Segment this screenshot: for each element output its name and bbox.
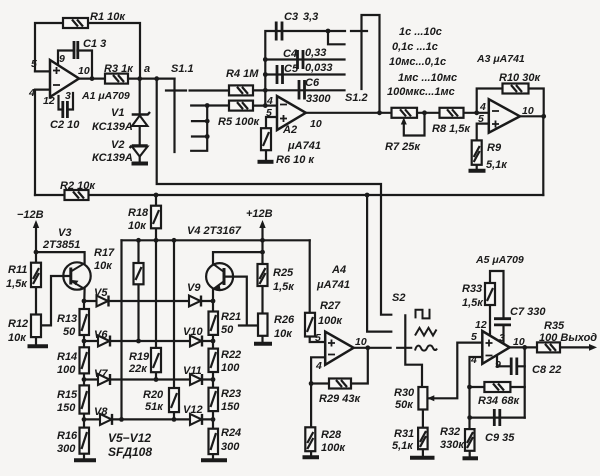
potentiometer R30 body <box>418 387 427 410</box>
svg-text:R13: R13 <box>57 313 77 325</box>
svg-text:10: 10 <box>522 105 534 117</box>
svg-text:КС139А: КС139А <box>92 152 133 164</box>
svg-text:R23: R23 <box>221 388 241 400</box>
svg-text:S1.2: S1.2 <box>345 92 368 104</box>
resistor R15 <box>80 385 90 413</box>
svg-text:1мс ...10мс: 1мс ...10мс <box>398 72 457 84</box>
svg-text:R9: R9 <box>487 142 502 154</box>
resistor R11 <box>31 263 41 287</box>
svg-text:V5−V12: V5−V12 <box>108 431 151 445</box>
node rail D V12 <box>172 417 177 422</box>
node bus C5 <box>263 72 268 77</box>
node A3 pin4 loop <box>474 110 479 115</box>
svg-text:R7 25к: R7 25к <box>385 141 421 153</box>
node S1.1 row2 <box>205 103 210 108</box>
svg-text:10к: 10к <box>274 328 293 340</box>
wire A2 output row to A3 <box>306 112 489 114</box>
symbol sine wave <box>415 345 437 350</box>
wire A3 output <box>520 115 544 117</box>
arrowhead output <box>589 344 597 351</box>
node A3 output <box>541 114 546 119</box>
node V3 collector <box>34 250 39 255</box>
svg-text:10к: 10к <box>128 220 147 232</box>
svg-text:R27: R27 <box>320 300 341 312</box>
svg-text:50к: 50к <box>395 399 414 411</box>
svg-text:V1: V1 <box>111 107 124 119</box>
wire C4 row <box>265 58 344 60</box>
node ladder L V6 <box>82 339 87 344</box>
capacitor C1 <box>74 41 78 59</box>
svg-text:A5 μА709: A5 μА709 <box>475 254 524 266</box>
svg-text:R24: R24 <box>221 427 241 439</box>
ground R12 <box>28 344 49 348</box>
wire rail A <box>120 240 122 419</box>
node S1.1 row3 <box>205 119 210 124</box>
wire zener chain <box>139 79 141 163</box>
node R34 left <box>467 385 472 390</box>
svg-text:12: 12 <box>475 319 487 331</box>
wire diode row V7 V11 <box>84 378 213 380</box>
capacitor C5 <box>277 65 283 84</box>
resistor R20 <box>169 388 179 412</box>
wire R29 feedback row <box>311 348 368 384</box>
switch S2 bar <box>405 315 422 387</box>
resistor R13 <box>80 309 90 335</box>
wire V3 collector <box>36 252 85 263</box>
ground zener chain <box>132 162 149 166</box>
svg-text:V4 2Т3167: V4 2Т3167 <box>187 225 242 237</box>
node bus +12V <box>260 238 265 243</box>
ground R24 <box>201 458 227 462</box>
svg-text:КС139А: КС139А <box>92 121 133 133</box>
svg-text:R31: R31 <box>394 428 414 440</box>
svg-text:4: 4 <box>28 87 35 99</box>
svg-text:V9: V9 <box>187 282 201 294</box>
transistor V4 2T3167 <box>206 263 233 290</box>
waveform symbols S2 <box>415 310 437 351</box>
wire output vertical C8 R34 C9 <box>524 347 526 417</box>
node rail A V8 <box>119 417 124 422</box>
wire capacitor bus A2 <box>265 31 345 106</box>
svg-text:R15: R15 <box>57 389 78 401</box>
svg-text:300: 300 <box>221 441 240 453</box>
node bus R5 pin4 <box>263 103 268 108</box>
svg-text:R32: R32 <box>440 426 460 438</box>
op-amp A5 <box>482 331 509 364</box>
svg-text:4: 4 <box>315 360 322 372</box>
wire R30 to R31 <box>422 410 424 428</box>
resistor R10 <box>503 84 529 94</box>
op-amp A4 <box>325 332 353 365</box>
wire R9 to ground <box>476 165 478 170</box>
svg-text:C8 22: C8 22 <box>532 364 561 376</box>
resistor R29 <box>329 379 351 389</box>
node bus rail C <box>154 238 159 243</box>
resistor R27 <box>305 313 315 337</box>
node S2 triangle rail <box>365 193 370 198</box>
svg-text:22к: 22к <box>128 363 148 375</box>
svg-text:10: 10 <box>310 118 322 130</box>
diode V10 <box>190 336 202 347</box>
wire R26 to ground <box>261 336 263 343</box>
wire C9 row <box>470 417 525 419</box>
wire A3 pin5 to R9 <box>477 124 489 141</box>
svg-text:4: 4 <box>266 95 273 107</box>
transistors <box>63 262 233 290</box>
svg-text:100 Выход: 100 Выход <box>539 332 597 344</box>
wire R28 to ground <box>310 451 312 456</box>
svg-text:R18: R18 <box>128 207 149 219</box>
svg-text:R2 10к: R2 10к <box>60 180 96 192</box>
svg-text:R35: R35 <box>544 320 565 332</box>
node rail C V7 <box>154 377 159 382</box>
node A4 pin4 R29 <box>309 381 314 386</box>
node zener tap <box>137 76 142 81</box>
svg-text:R11: R11 <box>8 264 27 276</box>
svg-text:5: 5 <box>31 58 37 70</box>
wire left ladder rail <box>83 301 85 459</box>
resistor R17 <box>134 263 144 284</box>
wire rail D with R20 <box>173 240 175 419</box>
node S1.1 row4 <box>205 134 210 139</box>
svg-text:50: 50 <box>63 326 76 338</box>
svg-text:R34 68к: R34 68к <box>478 395 520 407</box>
svg-text:4: 4 <box>470 354 477 366</box>
node ladder L V8 <box>82 417 87 422</box>
wire S1.1 row1 to R4 <box>190 89 229 91</box>
node ladder L V7 <box>82 377 87 382</box>
node A4 output R29 <box>365 345 370 350</box>
switch S1.2 contact dash row1 <box>351 30 367 32</box>
resistor R14 <box>80 347 90 373</box>
svg-text:300: 300 <box>57 443 76 455</box>
symbol square wave <box>416 310 431 319</box>
A1 plus minus <box>53 67 60 85</box>
svg-text:3: 3 <box>499 332 505 344</box>
arrow -12V <box>33 220 39 228</box>
wire R7 wiper <box>404 113 425 136</box>
wire S2 triangle rail <box>367 195 391 332</box>
svg-text:V10: V10 <box>183 326 203 338</box>
svg-text:1,5к: 1,5к <box>462 297 484 309</box>
svg-text:12: 12 <box>43 95 55 107</box>
svg-text:C5: C5 <box>284 63 299 75</box>
svg-text:5: 5 <box>266 107 272 119</box>
node bus rail D <box>172 238 177 243</box>
node bus C4 <box>263 57 268 62</box>
wire S1.1 row4 stub <box>192 135 207 137</box>
potentiometer R7 body <box>392 108 418 118</box>
arrowhead R7 wiper up <box>401 118 407 125</box>
wire C1 compensation loop A1 <box>58 51 92 79</box>
node R7 wiper <box>422 110 427 115</box>
svg-text:2Т3851: 2Т3851 <box>42 239 80 251</box>
svg-text:10: 10 <box>78 65 90 77</box>
svg-text:50: 50 <box>221 324 234 336</box>
capacitor C2 <box>63 101 68 118</box>
svg-text:1,5к: 1,5к <box>273 281 295 293</box>
wire R1 feedback loop A1 <box>35 23 140 79</box>
svg-text:150: 150 <box>221 401 240 413</box>
svg-text:3,3: 3,3 <box>303 11 318 23</box>
resistor R26 tapped <box>258 314 268 336</box>
svg-text:10: 10 <box>355 336 367 348</box>
svg-text:10к: 10к <box>94 260 113 272</box>
node V4 collector R25 <box>260 250 265 255</box>
ground R32 <box>463 456 479 460</box>
wire R31 to ground <box>422 449 424 456</box>
svg-text:R6 10 к: R6 10 к <box>276 154 315 166</box>
op-amp A1 <box>50 60 79 97</box>
ground R31 <box>410 456 435 460</box>
wire C3 second contact <box>328 31 345 44</box>
wire A3 output drop <box>542 116 544 195</box>
wire A5 pin9 to C8 <box>497 356 525 367</box>
svg-text:S2: S2 <box>392 292 405 304</box>
svg-text:100: 100 <box>221 362 240 374</box>
svg-text:R20: R20 <box>143 389 164 401</box>
wire C2 loop A1 <box>59 93 74 110</box>
svg-text:100к: 100к <box>318 315 343 327</box>
ground R9 <box>469 169 486 173</box>
ground R16 <box>74 458 96 462</box>
svg-text:R5 100к: R5 100к <box>218 116 260 128</box>
svg-text:C2 10: C2 10 <box>50 119 80 131</box>
svg-text:5: 5 <box>315 332 321 344</box>
diode V8 <box>100 414 112 425</box>
wire C5 row <box>265 73 344 75</box>
wire diode row V6 V10 <box>84 340 213 342</box>
svg-text:R28: R28 <box>321 429 342 441</box>
svg-text:C3: C3 <box>284 11 298 23</box>
resistor R2 <box>65 190 89 200</box>
svg-text:R8 1,5к: R8 1,5к <box>432 123 471 135</box>
svg-text:R12: R12 <box>8 318 28 330</box>
svg-text:V12: V12 <box>183 404 203 416</box>
svg-text:10к: 10к <box>8 332 27 344</box>
capacitor C6 <box>299 80 305 100</box>
symbol triangle wave <box>415 328 437 336</box>
wire V4 collector <box>213 252 263 263</box>
resistor R19 <box>151 348 161 372</box>
svg-text:V7: V7 <box>94 368 108 380</box>
svg-text:C6: C6 <box>305 77 320 89</box>
diode V5 <box>97 296 109 307</box>
resistor R31 <box>418 428 428 450</box>
svg-text:R33: R33 <box>462 283 482 295</box>
svg-text:100к: 100к <box>321 442 346 454</box>
wire pin4 A1 and left rail to bottom <box>35 90 50 195</box>
svg-text:330к: 330к <box>440 439 465 451</box>
svg-text:5: 5 <box>471 331 477 343</box>
wire A5 output row <box>510 346 537 348</box>
ground R6 <box>258 160 274 164</box>
wire right ladder rail <box>212 301 214 459</box>
svg-text:R25: R25 <box>273 267 294 279</box>
svg-text:R1 10к: R1 10к <box>90 11 126 23</box>
wire S1.1 row2 to R5 <box>191 104 229 106</box>
svg-text:9: 9 <box>495 359 501 371</box>
svg-text:4: 4 <box>479 101 486 113</box>
ground R26 <box>254 342 272 346</box>
svg-text:5,1к: 5,1к <box>392 440 414 452</box>
svg-text:C9 35: C9 35 <box>485 432 515 444</box>
wire V4 base <box>224 277 259 326</box>
wire A3 feedback loop R10 <box>477 89 544 117</box>
capacitor C3 <box>276 22 282 41</box>
svg-text:R29 43к: R29 43к <box>319 393 361 405</box>
svg-text:100мкс...1мс: 100мкс...1мс <box>387 86 455 98</box>
svg-text:5,1к: 5,1к <box>486 159 508 171</box>
resistor R1 <box>63 18 88 28</box>
svg-text:9: 9 <box>59 53 65 65</box>
svg-text:10: 10 <box>513 336 525 348</box>
wire shaper bus <box>122 239 310 241</box>
wire long feedback bottom y=195 <box>35 194 543 196</box>
svg-text:SFД108: SFД108 <box>108 445 152 459</box>
wire V3 emitter to ladder <box>83 289 85 301</box>
svg-text:a: a <box>144 63 150 75</box>
op-amp A2 <box>277 96 306 130</box>
wire A4 pin4 rail <box>311 357 325 427</box>
resistor R9 <box>472 140 482 164</box>
diode V12 <box>190 414 202 425</box>
svg-text:V6: V6 <box>94 329 108 341</box>
node A5 output <box>522 345 527 350</box>
svg-text:1,5к: 1,5к <box>6 278 28 290</box>
resistor R32 <box>465 429 475 451</box>
diode V6 <box>98 336 110 347</box>
svg-text:A1 μА709: A1 μА709 <box>81 90 130 102</box>
svg-text:R22: R22 <box>221 349 241 361</box>
node ladder R V10 <box>211 339 216 344</box>
supply arrows <box>33 118 597 402</box>
node ladder R V12 <box>211 417 216 422</box>
wire S1.1 lower contacts rail <box>191 106 207 151</box>
svg-text:A4: A4 <box>331 264 346 276</box>
resistor R16 <box>80 428 90 454</box>
svg-text:C7 330: C7 330 <box>510 306 546 318</box>
wire rail B with R17 <box>137 240 139 341</box>
A3 minus plus <box>492 111 499 128</box>
arrow +12V <box>259 220 265 228</box>
switch S1.1 bar <box>173 79 175 152</box>
A4 plus minus <box>328 340 335 355</box>
svg-text:R30: R30 <box>394 387 415 399</box>
wire V4 emitter to right ladder <box>212 290 214 302</box>
node C3 contact <box>326 29 331 34</box>
svg-text:150: 150 <box>57 402 76 414</box>
node ladder R V9 <box>211 299 216 304</box>
switch S1.2 bar and return leg <box>362 15 380 113</box>
node R18 top <box>154 193 159 198</box>
diode V7 <box>98 374 110 385</box>
resistor R28 <box>305 427 315 451</box>
resistor R4 <box>229 85 253 95</box>
node C9 R32 <box>467 415 472 420</box>
wire C6 row <box>265 89 344 91</box>
diode V9 <box>189 296 201 307</box>
svg-text:3300: 3300 <box>306 93 331 105</box>
resistor R34 <box>484 382 510 392</box>
svg-text:V11: V11 <box>183 365 202 377</box>
svg-text:−12В: −12В <box>17 209 44 221</box>
svg-text:0,033: 0,033 <box>305 62 333 74</box>
resistor R6 <box>261 128 271 150</box>
resistor R5 <box>229 101 253 111</box>
A2 minus plus <box>280 105 287 123</box>
node ladder R V11 <box>211 377 216 382</box>
svg-text:0,33: 0,33 <box>305 47 326 59</box>
wire R32 to ground <box>469 451 471 457</box>
wire A4 output row <box>354 347 391 349</box>
op-amp input polarity signs <box>53 67 499 356</box>
wire V3 base <box>41 276 71 325</box>
wire R27 rail <box>309 240 311 312</box>
ground symbols <box>28 162 486 461</box>
resistor R35 <box>537 342 560 352</box>
svg-text:R3 1к: R3 1к <box>104 63 134 75</box>
resistor R3 <box>105 74 128 84</box>
wire A5 compensation R33 C7 <box>490 271 504 343</box>
arrowhead R30 wiper left <box>427 395 434 401</box>
wire rail C with R18 R19 <box>155 195 157 380</box>
svg-text:A2: A2 <box>282 124 297 136</box>
svg-text:10мс...0,1с: 10мс...0,1с <box>389 56 446 68</box>
A5 plus minus <box>486 340 493 356</box>
resistor R24 <box>209 429 219 454</box>
resistor R25 <box>258 264 268 286</box>
wire diode row V8 V12 <box>84 418 213 420</box>
svg-text:V3: V3 <box>58 227 71 239</box>
svg-text:V8: V8 <box>94 406 108 418</box>
capacitor C7 <box>494 319 511 325</box>
svg-text:S1.1: S1.1 <box>171 63 194 75</box>
wire R11-R12 rail <box>35 287 37 345</box>
resistor R33 <box>485 283 495 305</box>
wire pin5 A1 <box>35 70 50 72</box>
capacitor C4 <box>298 50 304 69</box>
node S1.2 leg output <box>377 110 382 115</box>
ground R28 <box>303 455 320 459</box>
svg-text:R26: R26 <box>274 314 295 326</box>
svg-text:3: 3 <box>65 90 71 102</box>
svg-text:V2: V2 <box>111 139 124 151</box>
resistor R8 <box>440 108 464 118</box>
diodes and zeners <box>97 112 203 425</box>
node a <box>154 76 159 81</box>
wire diode row V5 V9 <box>84 300 213 302</box>
capacitors <box>63 22 517 427</box>
transistor V3 2T3851 <box>63 262 90 289</box>
capacitor C9 <box>494 409 500 426</box>
op-amp A3 <box>489 99 520 133</box>
wire pin4 row A2 <box>265 104 277 106</box>
node bus rail B <box>136 238 141 243</box>
svg-text:R14: R14 <box>57 351 77 363</box>
wire +12V rail <box>261 224 263 314</box>
svg-text:R21: R21 <box>221 311 241 323</box>
node bus C6 R4 <box>263 88 268 93</box>
switch S1.1 contact dash row1 <box>166 89 186 91</box>
svg-text:R19: R19 <box>129 351 150 363</box>
svg-text:100: 100 <box>57 364 76 376</box>
svg-text:V5: V5 <box>94 287 108 299</box>
svg-text:R4 1М: R4 1М <box>226 68 259 80</box>
wire -12V supply rail <box>35 224 37 263</box>
node rail B V6 <box>136 339 141 344</box>
wire square-wave line node a to S2 <box>157 79 392 315</box>
